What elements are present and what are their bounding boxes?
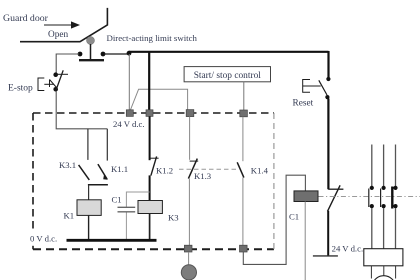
wire pole2 to motor	[383, 208, 385, 249]
24V supply line (thick)	[129, 51, 329, 53]
contactor pole 2	[381, 186, 386, 208]
phase line 1	[371, 145, 373, 187]
limit switch left terminal	[78, 52, 83, 57]
wire limit switch right to junction	[104, 53, 129, 55]
junction dot	[127, 51, 132, 56]
K1.3 contact	[190, 160, 199, 162]
e-stop actuator	[38, 78, 57, 91]
limit switch roller	[87, 37, 95, 45]
24V terminal bar	[313, 255, 338, 257]
guard door panel	[20, 8, 107, 42]
wire e-stop to relay contacts rail	[56, 91, 107, 129]
relay coil K1	[77, 200, 101, 216]
wire contact to 24V terminal	[327, 211, 329, 256]
svg-text:Guard door: Guard door	[3, 13, 49, 24]
relay coil K3	[138, 201, 162, 214]
K3.1 contact blade	[79, 165, 90, 180]
wire pole3 to motor	[395, 208, 397, 249]
svg-text:K1: K1	[64, 211, 75, 221]
terminal block 6	[240, 245, 248, 252]
reset actuator	[303, 80, 321, 93]
motor box	[364, 249, 403, 266]
wire limit switch left to E-stop	[56, 54, 79, 73]
0V rail	[67, 239, 157, 242]
svg-text:K3: K3	[168, 213, 179, 223]
wire terminal5 to indicator	[188, 252, 190, 265]
start/stop control box	[184, 67, 270, 82]
reset contact	[326, 77, 330, 81]
terminal block 2	[146, 110, 153, 117]
K1.4 contact blade	[237, 162, 244, 177]
limit switch right terminal	[101, 52, 106, 57]
svg-text:C1: C1	[289, 212, 299, 222]
wire junction down to terminal 1	[128, 54, 130, 111]
mechanical linkage contactor	[319, 196, 420, 198]
terminal block 5	[184, 245, 192, 252]
wire start box to terminal 4	[243, 82, 245, 110]
svg-text:24 V d.c.: 24 V d.c.	[113, 119, 145, 129]
contactor pole 1	[369, 186, 374, 208]
wire terminal4 to K1.4	[242, 117, 244, 161]
indicator lamp	[181, 265, 196, 280]
svg-text:E-stop: E-stop	[8, 84, 33, 94]
svg-text:0 V d.c.: 0 V d.c.	[30, 234, 57, 244]
K1.2 contact	[150, 157, 158, 159]
wire terminal1 to start rail (diagonal)	[130, 89, 188, 111]
K1.1 contact blade	[98, 164, 107, 179]
svg-text:K1.2: K1.2	[156, 166, 173, 176]
wire 24V line down to terminal 2 (thick)	[148, 52, 150, 110]
wire K1.4 to terminal 6	[242, 177, 244, 245]
contacts bottom junction	[88, 184, 108, 186]
svg-text:K3.1: K3.1	[59, 160, 76, 170]
svg-text:K1.1: K1.1	[111, 164, 128, 174]
motor circle	[371, 266, 395, 279]
svg-text:C1: C1	[112, 195, 122, 205]
wire terminal3 to K1.3	[189, 117, 191, 160]
capacitor C1	[126, 192, 149, 240]
contactor pole 3	[392, 186, 397, 209]
mechanical linkage K1.3-K1.4	[179, 168, 237, 170]
limit switch plunger	[90, 44, 92, 59]
svg-text:Direct-acting limit switch: Direct-acting limit switch	[107, 33, 198, 43]
wire K1.3 to terminal 5	[188, 179, 190, 245]
guard door arrow	[44, 21, 80, 28]
wire C1 coil to bottom	[304, 202, 306, 280]
svg-text:Reset: Reset	[293, 99, 314, 109]
terminal block 3	[186, 110, 194, 117]
wire down to K1.1	[106, 129, 108, 161]
svg-text:Open: Open	[48, 30, 68, 40]
svg-text:K1.4: K1.4	[251, 166, 269, 176]
dashed enclosure box	[33, 113, 274, 249]
svg-text:24 V d.c.: 24 V d.c.	[332, 243, 364, 253]
phase line 3	[395, 145, 397, 187]
24V wire down right side (thick)	[327, 51, 329, 78]
wire K3 coil to 0V rail	[149, 214, 151, 241]
limit switch actuator bar	[79, 59, 104, 61]
terminal block 4	[240, 110, 248, 117]
wire down to K3.1	[87, 129, 89, 160]
phase line 2	[383, 145, 385, 187]
C1 auxiliary contact	[328, 188, 343, 190]
contactor coil C1	[294, 191, 318, 202]
svg-text:Start/ stop control: Start/ stop control	[194, 71, 262, 81]
wire terminal2 to K1.2 (thick)	[149, 116, 151, 160]
wire K1.2 to K3 coil (thick)	[149, 175, 151, 200]
wire terminal6 to C1 coil	[243, 175, 305, 264]
wire pole1 to motor	[371, 208, 373, 249]
wire K1 coil to 0V rail	[88, 215, 90, 240]
terminal block 1	[126, 110, 133, 117]
e-stop contact	[53, 70, 68, 91]
svg-text:K1.3: K1.3	[194, 171, 211, 181]
wire junction to K1 coil	[88, 185, 90, 200]
